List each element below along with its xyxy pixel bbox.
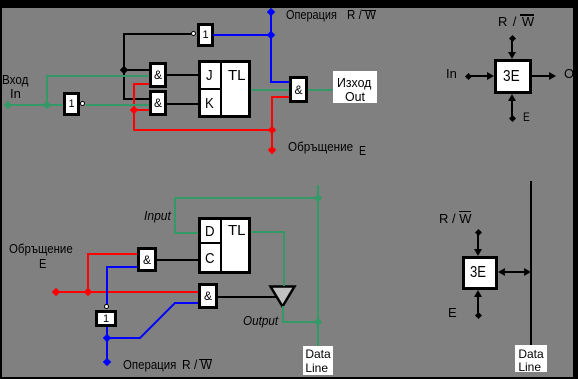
inverter bubble — [104, 304, 109, 309]
inverter 1 (R/W) — [197, 23, 214, 47]
wire — [46, 75, 149, 77]
wire — [469, 75, 488, 77]
wire — [87, 253, 89, 291]
label Изход Out — [333, 71, 377, 103]
wire — [174, 198, 176, 233]
divider — [220, 63, 222, 115]
label Операция — [286, 8, 347, 22]
label E — [523, 110, 531, 124]
node (junction) — [84, 288, 92, 296]
wire — [477, 294, 479, 313]
arrowhead — [474, 249, 482, 256]
pin C — [205, 252, 216, 266]
wire (diagonal) — [139, 303, 176, 340]
wire — [174, 302, 198, 304]
arrowhead — [549, 72, 556, 80]
wire — [133, 109, 149, 111]
wire — [46, 75, 48, 105]
overline — [199, 359, 213, 361]
node E (left end) — [52, 288, 60, 296]
wire — [251, 231, 284, 233]
label TL — [228, 69, 246, 83]
node R/W — [474, 228, 481, 235]
label R/W — [347, 8, 380, 22]
wire — [106, 267, 108, 304]
inverter bubble — [191, 31, 196, 36]
overline — [459, 211, 472, 213]
label Вход — [2, 73, 31, 87]
label Е — [39, 257, 48, 271]
wire — [308, 89, 333, 91]
node (junction) — [314, 318, 322, 326]
label TL — [228, 224, 246, 238]
label Output — [243, 314, 282, 328]
node In — [464, 72, 471, 79]
wire — [106, 327, 108, 360]
divider — [220, 220, 222, 271]
label E — [448, 306, 457, 320]
node (junction) — [103, 334, 111, 342]
label Data Line — [303, 346, 333, 375]
arrowhead — [474, 290, 482, 297]
label Обръщение — [288, 140, 360, 154]
wire — [106, 266, 137, 268]
wire — [283, 231, 285, 286]
label In — [10, 87, 21, 101]
wire — [317, 185, 319, 346]
wire — [282, 306, 284, 322]
wire — [532, 75, 549, 77]
label Операция — [123, 358, 184, 372]
AND gate & (output) — [289, 76, 308, 103]
node R/W — [508, 34, 515, 41]
D flip-flop TL — [198, 217, 251, 274]
wire — [477, 233, 479, 250]
frame — [0, 0, 578, 8]
label Обръщение — [9, 242, 81, 256]
node Операция R/W (bottom end) — [103, 358, 111, 366]
wire — [504, 271, 525, 273]
node In (left end) — [4, 100, 12, 108]
node E — [508, 114, 515, 121]
label Data Line — [515, 345, 547, 372]
wire — [123, 69, 149, 71]
label Input — [144, 209, 173, 223]
wire — [7, 104, 63, 106]
arrowhead — [524, 268, 531, 276]
wire — [133, 129, 273, 131]
wire — [271, 96, 273, 150]
wire — [133, 83, 149, 85]
node Операция R/W (top end) — [267, 8, 275, 16]
wire — [270, 12, 272, 83]
wire — [86, 104, 149, 106]
label Е — [359, 144, 368, 158]
wire — [218, 296, 277, 298]
node (junction) — [314, 194, 322, 202]
node (junction) — [120, 65, 128, 73]
label R/W — [182, 358, 215, 372]
wire — [174, 232, 198, 234]
node (junction) — [268, 126, 276, 134]
pin K — [205, 97, 215, 111]
wire — [133, 83, 135, 130]
arrowhead — [508, 52, 516, 59]
arrowhead — [508, 94, 516, 101]
wire — [271, 96, 289, 98]
wire (data line) — [530, 181, 532, 345]
wire — [157, 259, 198, 261]
wire — [87, 253, 137, 255]
wire — [123, 98, 149, 100]
AND gate & (J) — [149, 62, 167, 88]
wire — [270, 81, 289, 83]
node (junction) — [130, 105, 138, 113]
wire — [55, 291, 198, 293]
wire — [511, 39, 513, 53]
wire — [167, 74, 198, 76]
wire — [251, 89, 289, 91]
AND gate & (K) — [149, 90, 167, 116]
node (In branch junction) — [43, 100, 51, 108]
wire — [511, 100, 513, 116]
overline — [362, 10, 376, 12]
wire — [282, 321, 318, 323]
divider — [201, 88, 220, 90]
node Обръщение E (end) — [268, 146, 276, 154]
pin D — [205, 225, 216, 239]
AND gate & (output) — [198, 283, 218, 309]
inverter 1 (R/W) — [95, 310, 117, 327]
node E — [474, 311, 481, 318]
wire — [123, 33, 191, 35]
arrowhead — [487, 72, 494, 80]
label In — [446, 67, 457, 81]
overline — [520, 14, 534, 16]
node (junction) — [267, 30, 275, 38]
label R/W — [498, 15, 534, 29]
buffer 3E — [462, 256, 498, 290]
tri-state buffer (triangle) — [268, 284, 298, 310]
wire — [213, 34, 270, 36]
arrowhead — [498, 268, 505, 276]
label R/W — [439, 212, 472, 226]
label Out (clipped) — [564, 67, 578, 81]
wire — [167, 103, 198, 105]
AND gate & (C) — [137, 247, 157, 272]
divider — [201, 242, 220, 244]
wire — [123, 33, 125, 100]
buffer 3E — [494, 59, 532, 94]
JK flip-flop TL — [198, 60, 251, 118]
inverter bubble — [80, 101, 85, 106]
pin J — [206, 69, 214, 83]
wire — [174, 197, 318, 199]
inverter 1 (input) — [63, 92, 80, 116]
wire — [106, 337, 140, 339]
